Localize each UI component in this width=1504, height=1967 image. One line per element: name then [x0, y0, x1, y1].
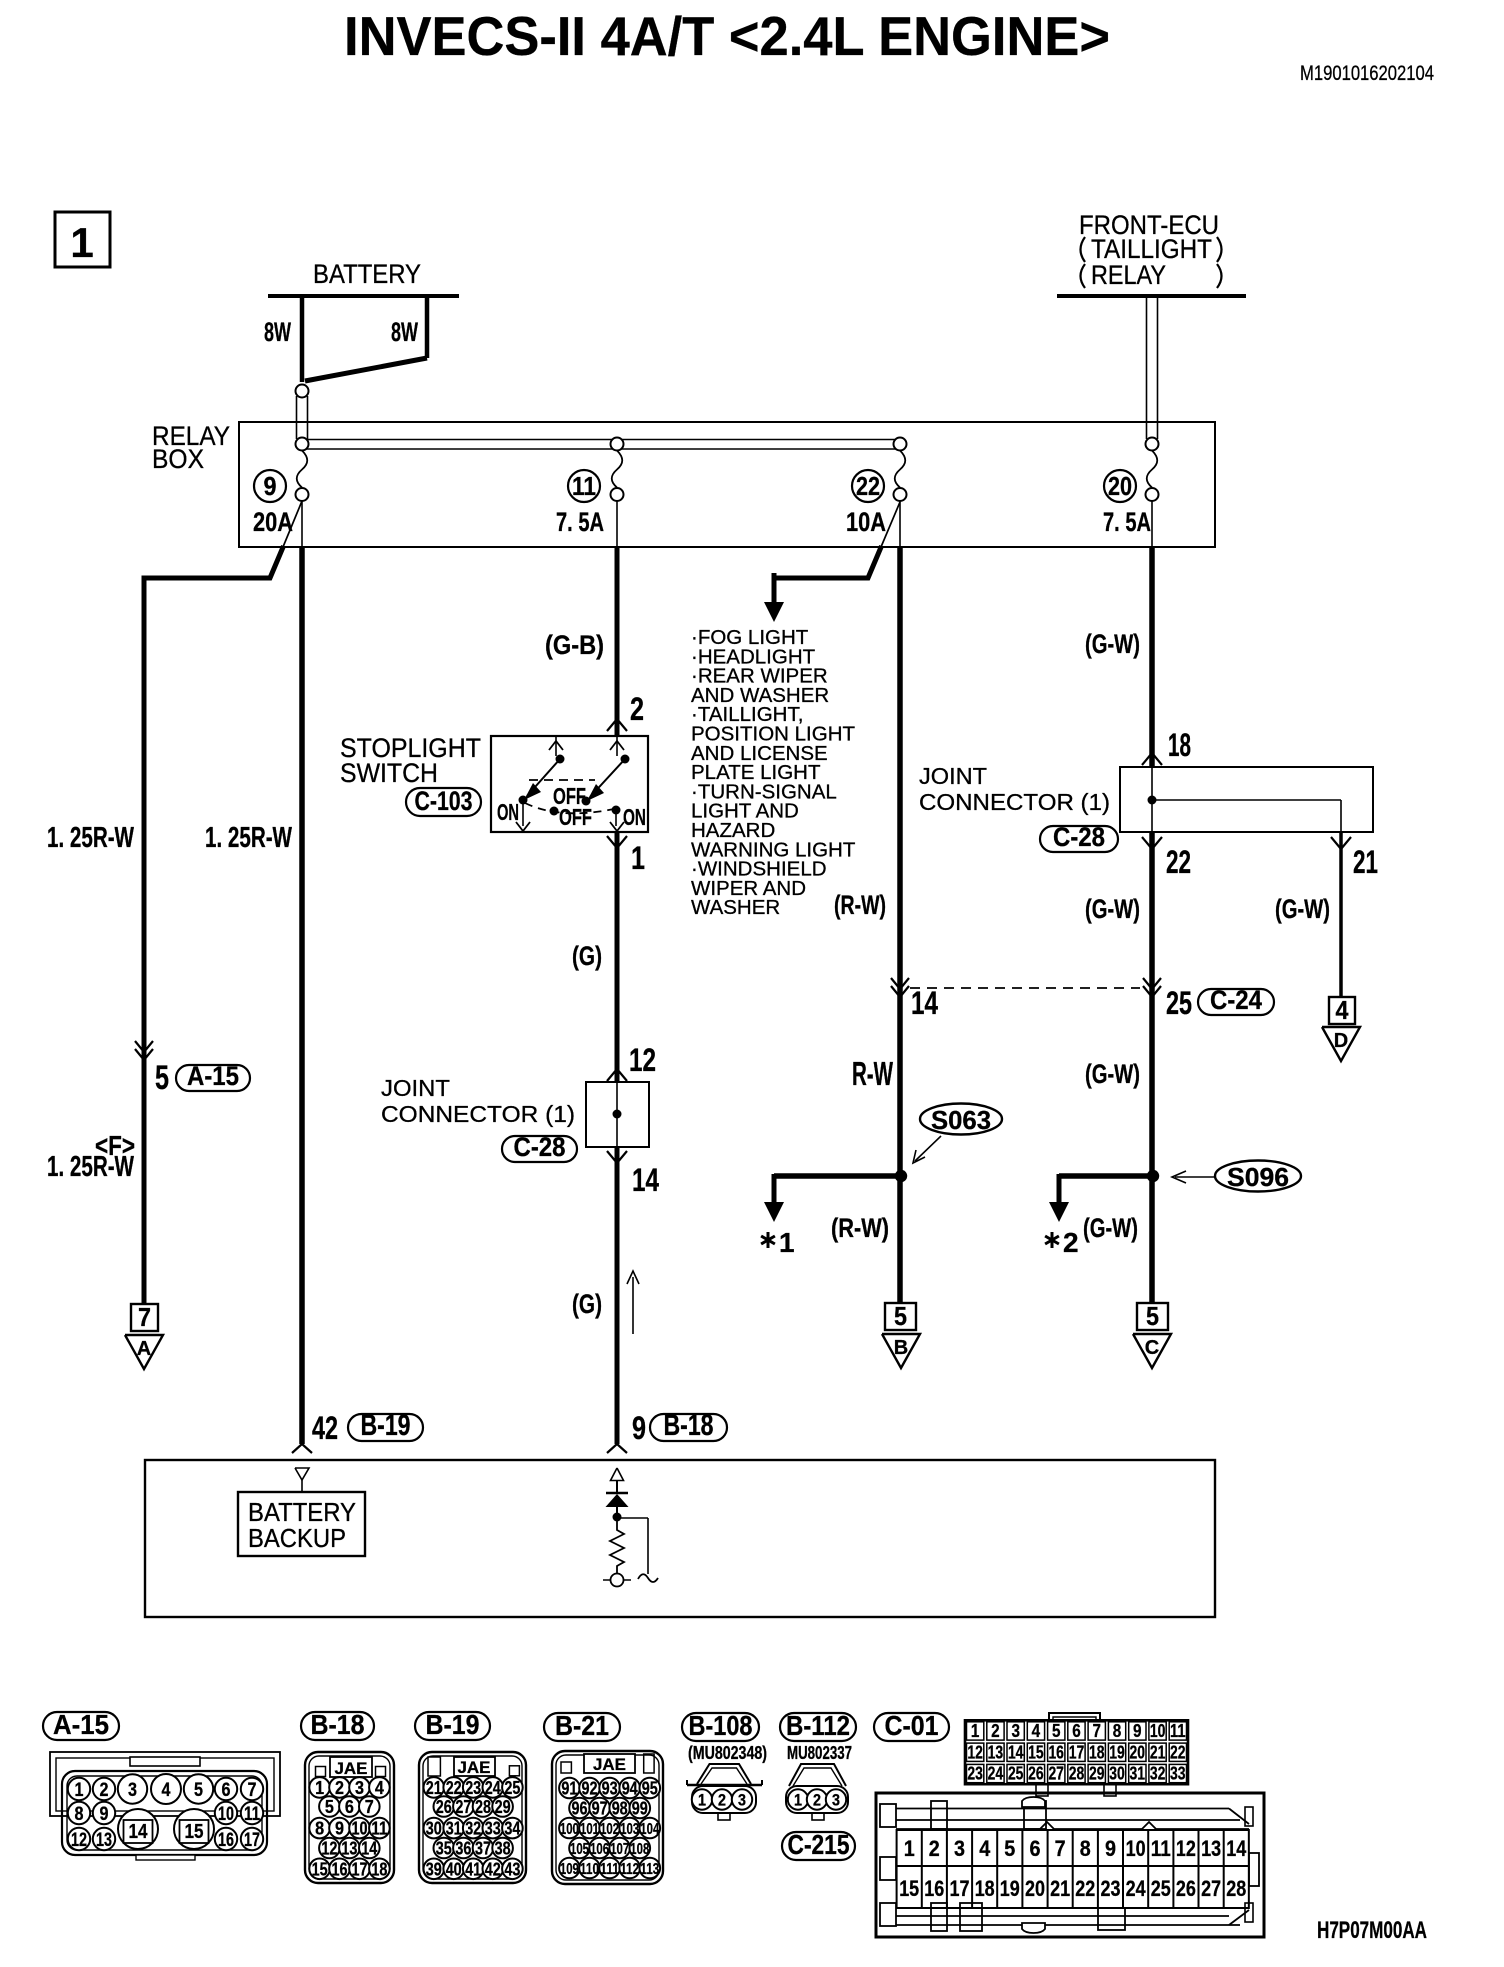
- svg-text:104: 104: [640, 1821, 659, 1838]
- svg-text:1: 1: [904, 1836, 915, 1861]
- svg-text:20: 20: [1130, 1742, 1146, 1762]
- svg-text:JAE: JAE: [458, 1758, 491, 1777]
- svg-text:(G-W): (G-W): [1083, 1213, 1138, 1243]
- svg-text:33: 33: [485, 1819, 501, 1839]
- svg-text:25: 25: [1151, 1876, 1171, 1901]
- svg-text:(G-W): (G-W): [1085, 1059, 1140, 1089]
- svg-text:29: 29: [495, 1797, 511, 1817]
- svg-text:(G-W): (G-W): [1085, 894, 1140, 924]
- svg-text:8W: 8W: [391, 317, 418, 347]
- svg-text:23: 23: [1101, 1876, 1121, 1901]
- svg-text:9: 9: [1133, 1721, 1142, 1741]
- svg-text:26: 26: [1176, 1876, 1196, 1901]
- svg-text:6: 6: [1072, 1721, 1081, 1741]
- svg-text:97: 97: [592, 1798, 608, 1818]
- svg-text:26: 26: [1028, 1764, 1044, 1784]
- svg-text:12: 12: [71, 1830, 87, 1851]
- svg-text:96: 96: [572, 1798, 588, 1818]
- svg-text:20A: 20A: [253, 507, 293, 537]
- svg-text:1. 25R-W: 1. 25R-W: [47, 822, 134, 854]
- svg-text:BATTERY: BATTERY: [313, 259, 421, 289]
- svg-text:CONNECTOR (1): CONNECTOR (1): [381, 1101, 575, 1127]
- svg-text:1: 1: [631, 840, 645, 876]
- svg-text:2: 2: [718, 1791, 726, 1810]
- svg-text:(G-W): (G-W): [1085, 629, 1140, 659]
- svg-text:3: 3: [954, 1836, 965, 1861]
- svg-text:95: 95: [642, 1778, 658, 1798]
- svg-text:12: 12: [629, 1042, 656, 1078]
- svg-text:20: 20: [1108, 471, 1132, 501]
- svg-text:22: 22: [1075, 1876, 1095, 1901]
- svg-text:B-108: B-108: [689, 1710, 753, 1741]
- svg-text:16: 16: [218, 1830, 234, 1851]
- svg-text:112: 112: [620, 1861, 639, 1878]
- svg-text:WASHER: WASHER: [691, 896, 780, 919]
- svg-text:98: 98: [612, 1798, 628, 1818]
- svg-text:106: 106: [590, 1841, 609, 1858]
- svg-text:13: 13: [988, 1742, 1004, 1762]
- svg-text:25: 25: [1008, 1764, 1024, 1784]
- svg-text:13: 13: [341, 1838, 357, 1858]
- svg-text:15: 15: [899, 1876, 919, 1901]
- svg-text:4: 4: [1032, 1721, 1041, 1741]
- svg-text:3: 3: [1011, 1721, 1020, 1741]
- svg-text:5: 5: [194, 1780, 203, 1801]
- svg-text:1: 1: [315, 1778, 324, 1798]
- svg-text:BACKUP: BACKUP: [248, 1523, 346, 1553]
- svg-text:(R-W): (R-W): [834, 890, 886, 920]
- svg-text:27: 27: [1201, 1876, 1221, 1901]
- svg-text:C-01: C-01: [885, 1710, 939, 1741]
- svg-text:20: 20: [1025, 1876, 1045, 1901]
- svg-text:31: 31: [1130, 1764, 1146, 1784]
- svg-text:8: 8: [315, 1819, 324, 1839]
- svg-text:91: 91: [561, 1778, 577, 1798]
- svg-text:8: 8: [1113, 1721, 1122, 1741]
- svg-text:15: 15: [1028, 1742, 1044, 1762]
- svg-text:28: 28: [1069, 1764, 1085, 1784]
- svg-text:24: 24: [1126, 1876, 1147, 1901]
- svg-text:17: 17: [1069, 1742, 1085, 1762]
- svg-text:C-28: C-28: [1053, 822, 1105, 852]
- svg-text:ON: ON: [497, 799, 519, 825]
- svg-text:2: 2: [991, 1721, 1000, 1741]
- svg-text:2: 2: [1063, 1227, 1079, 1258]
- svg-text:22: 22: [446, 1778, 462, 1798]
- svg-text:10: 10: [218, 1804, 234, 1825]
- svg-text:1: 1: [779, 1227, 795, 1258]
- svg-text:11: 11: [572, 471, 596, 501]
- svg-text:21: 21: [1150, 1742, 1166, 1762]
- svg-text:18: 18: [1168, 727, 1191, 763]
- svg-text:42: 42: [485, 1859, 501, 1879]
- svg-text:30: 30: [1109, 1764, 1125, 1784]
- svg-text:18: 18: [975, 1876, 995, 1901]
- svg-text:2: 2: [813, 1791, 821, 1810]
- svg-text:5: 5: [1052, 1721, 1061, 1741]
- svg-text:(MU802348): (MU802348): [688, 1743, 767, 1763]
- svg-text:B-19: B-19: [426, 1709, 480, 1740]
- svg-text:5: 5: [1004, 1836, 1015, 1861]
- svg-text:100: 100: [560, 1821, 579, 1838]
- svg-text:19: 19: [1109, 1742, 1125, 1762]
- svg-text:8: 8: [1080, 1836, 1091, 1861]
- svg-text:110: 110: [580, 1861, 599, 1878]
- svg-text:101: 101: [580, 1821, 599, 1838]
- svg-text:7: 7: [138, 1302, 151, 1332]
- svg-text:21: 21: [1353, 844, 1378, 880]
- svg-text:3: 3: [738, 1791, 746, 1810]
- svg-text:C-24: C-24: [1210, 985, 1262, 1015]
- svg-text:1: 1: [698, 1791, 706, 1810]
- svg-text:6: 6: [222, 1780, 231, 1801]
- svg-text:A-15: A-15: [53, 1709, 109, 1740]
- svg-text:32: 32: [1150, 1764, 1166, 1784]
- svg-text:1: 1: [971, 1721, 980, 1741]
- svg-text:9: 9: [100, 1804, 109, 1825]
- svg-text:22: 22: [1166, 844, 1191, 880]
- svg-text:22: 22: [856, 471, 880, 501]
- svg-text:28: 28: [1226, 1876, 1246, 1901]
- svg-text:4: 4: [162, 1780, 171, 1801]
- svg-text:27: 27: [455, 1797, 471, 1817]
- svg-text:7: 7: [248, 1780, 257, 1801]
- svg-text:12: 12: [321, 1838, 337, 1858]
- svg-text:A-15: A-15: [187, 1061, 239, 1091]
- svg-text:99: 99: [632, 1798, 648, 1818]
- svg-text:14: 14: [129, 1821, 149, 1843]
- svg-text:7: 7: [1055, 1836, 1066, 1861]
- svg-text:D: D: [1334, 1030, 1348, 1052]
- svg-text:19: 19: [1000, 1876, 1020, 1901]
- svg-text:(G): (G): [572, 941, 602, 971]
- svg-text:SWITCH: SWITCH: [340, 758, 438, 788]
- svg-text:22: 22: [1170, 1742, 1186, 1762]
- svg-text:B-18: B-18: [311, 1709, 365, 1740]
- svg-text:4: 4: [1336, 995, 1349, 1025]
- svg-text:39: 39: [426, 1859, 442, 1879]
- svg-text:(G): (G): [572, 1289, 602, 1319]
- svg-text:BOX: BOX: [152, 444, 204, 474]
- svg-text:14: 14: [911, 985, 938, 1021]
- svg-text:24: 24: [485, 1778, 501, 1798]
- svg-text:CONNECTOR (1): CONNECTOR (1): [919, 789, 1110, 815]
- svg-text:B-19: B-19: [361, 1409, 411, 1442]
- svg-text:37: 37: [475, 1838, 491, 1858]
- svg-text:41: 41: [465, 1859, 481, 1879]
- svg-text:43: 43: [504, 1859, 520, 1879]
- svg-text:11: 11: [1170, 1721, 1186, 1741]
- svg-text:16: 16: [1048, 1742, 1064, 1762]
- svg-text:13: 13: [96, 1830, 112, 1851]
- svg-text:25: 25: [1166, 985, 1192, 1021]
- svg-text:23: 23: [967, 1764, 983, 1784]
- svg-text:JOINT: JOINT: [381, 1075, 450, 1101]
- svg-text:C-28: C-28: [514, 1132, 566, 1162]
- svg-text:14: 14: [361, 1838, 377, 1858]
- svg-text:36: 36: [455, 1838, 471, 1858]
- svg-text:3: 3: [128, 1780, 137, 1801]
- svg-text:111: 111: [600, 1861, 619, 1878]
- svg-text:35: 35: [436, 1838, 452, 1858]
- svg-text:6: 6: [1030, 1836, 1041, 1861]
- svg-text:5: 5: [155, 1059, 169, 1097]
- svg-text:JAE: JAE: [593, 1755, 626, 1774]
- svg-text:RELAY: RELAY: [1091, 260, 1166, 290]
- svg-text:14: 14: [632, 1162, 659, 1198]
- svg-text:105: 105: [570, 1841, 589, 1858]
- svg-text:40: 40: [446, 1859, 462, 1879]
- svg-text:(G-W): (G-W): [1275, 894, 1330, 924]
- svg-text:3: 3: [832, 1791, 840, 1810]
- svg-text:10A: 10A: [846, 507, 886, 537]
- svg-text:15: 15: [312, 1859, 328, 1879]
- svg-text:7: 7: [1093, 1721, 1102, 1741]
- svg-text:M1901016202104: M1901016202104: [1300, 62, 1434, 85]
- svg-text:B-112: B-112: [786, 1710, 850, 1741]
- svg-text:12: 12: [967, 1742, 983, 1762]
- svg-text:18: 18: [371, 1859, 387, 1879]
- svg-text:C-103: C-103: [415, 786, 473, 816]
- svg-text:B: B: [894, 1337, 908, 1359]
- svg-text:5: 5: [894, 1301, 907, 1331]
- svg-text:JOINT: JOINT: [919, 763, 987, 789]
- svg-text:2: 2: [630, 691, 644, 727]
- svg-text:8: 8: [75, 1804, 84, 1825]
- svg-text:21: 21: [1050, 1876, 1070, 1901]
- svg-text:B-18: B-18: [664, 1409, 714, 1442]
- svg-text:108: 108: [630, 1841, 649, 1858]
- svg-text:33: 33: [1170, 1764, 1186, 1784]
- svg-text:7. 5A: 7. 5A: [1103, 507, 1151, 537]
- svg-text:(R-W): (R-W): [831, 1213, 889, 1243]
- svg-text:S096: S096: [1227, 1162, 1289, 1192]
- svg-text:9: 9: [1105, 1836, 1116, 1861]
- svg-text:R-W: R-W: [852, 1055, 894, 1092]
- svg-text:2: 2: [100, 1780, 109, 1801]
- svg-text:42: 42: [312, 1410, 338, 1446]
- svg-text:28: 28: [475, 1797, 491, 1817]
- svg-text:MU802337: MU802337: [787, 1743, 852, 1763]
- svg-text:10: 10: [352, 1819, 368, 1839]
- svg-text:16: 16: [924, 1876, 944, 1901]
- svg-text:4: 4: [375, 1778, 384, 1798]
- svg-text:25: 25: [504, 1778, 520, 1798]
- svg-text:1. 25R-W: 1. 25R-W: [205, 822, 292, 854]
- svg-text:A: A: [137, 1338, 151, 1360]
- svg-text:10: 10: [1126, 1836, 1146, 1861]
- svg-text:B-21: B-21: [555, 1710, 609, 1741]
- svg-text:113: 113: [640, 1861, 659, 1878]
- svg-text:JAE: JAE: [335, 1759, 368, 1778]
- svg-text:2: 2: [335, 1778, 344, 1798]
- svg-text:6: 6: [345, 1797, 354, 1817]
- svg-text:INVECS-II 4A/T <2.4L ENGINE>: INVECS-II 4A/T <2.4L ENGINE>: [344, 5, 1110, 67]
- svg-text:31: 31: [446, 1819, 462, 1839]
- svg-text:38: 38: [495, 1838, 511, 1858]
- svg-text:7. 5A: 7. 5A: [556, 507, 604, 537]
- svg-text:7: 7: [365, 1797, 374, 1817]
- svg-text:30: 30: [426, 1819, 442, 1839]
- svg-text:3: 3: [355, 1778, 364, 1798]
- svg-text:27: 27: [1048, 1764, 1064, 1784]
- svg-text:17: 17: [950, 1876, 970, 1901]
- svg-text:18: 18: [1089, 1742, 1105, 1762]
- svg-text:1: 1: [75, 1780, 84, 1801]
- svg-text:21: 21: [426, 1778, 442, 1798]
- svg-text:26: 26: [436, 1797, 452, 1817]
- svg-text:9: 9: [264, 471, 277, 501]
- svg-text:5: 5: [1146, 1301, 1159, 1331]
- svg-text:1: 1: [70, 219, 93, 266]
- svg-text:OFF: OFF: [559, 804, 592, 830]
- svg-text:92: 92: [582, 1778, 598, 1798]
- svg-text:14: 14: [1226, 1836, 1247, 1861]
- svg-text:109: 109: [560, 1861, 579, 1878]
- svg-text:S063: S063: [931, 1105, 991, 1135]
- svg-text:16: 16: [332, 1859, 348, 1879]
- svg-text:23: 23: [465, 1778, 481, 1798]
- svg-text:14: 14: [1008, 1742, 1024, 1762]
- svg-text:11: 11: [1151, 1836, 1171, 1861]
- svg-text:C: C: [1145, 1337, 1159, 1359]
- svg-text:10: 10: [1150, 1721, 1166, 1741]
- svg-text:13: 13: [1201, 1836, 1221, 1861]
- svg-text:11: 11: [244, 1804, 260, 1825]
- svg-text:15: 15: [185, 1821, 204, 1843]
- svg-text:32: 32: [465, 1819, 481, 1839]
- svg-text:ON: ON: [623, 804, 646, 830]
- svg-text:1. 25R-W: 1. 25R-W: [47, 1151, 134, 1183]
- svg-text:(G-B): (G-B): [545, 630, 604, 660]
- svg-text:4: 4: [979, 1836, 991, 1861]
- svg-text:93: 93: [602, 1778, 618, 1798]
- svg-text:8W: 8W: [264, 317, 291, 347]
- svg-text:29: 29: [1089, 1764, 1105, 1784]
- svg-text:9: 9: [632, 1410, 646, 1446]
- svg-text:C-215: C-215: [788, 1829, 850, 1860]
- svg-text:2: 2: [929, 1836, 940, 1861]
- svg-text:9: 9: [335, 1819, 344, 1839]
- svg-text:24: 24: [988, 1764, 1004, 1784]
- svg-text:12: 12: [1176, 1836, 1196, 1861]
- svg-text:5: 5: [325, 1797, 334, 1817]
- svg-text:11: 11: [371, 1819, 387, 1839]
- svg-text:17: 17: [244, 1830, 260, 1851]
- svg-text:1: 1: [794, 1791, 802, 1810]
- svg-text:107: 107: [610, 1841, 629, 1858]
- svg-text:17: 17: [352, 1859, 368, 1879]
- svg-text:H7P07M00AA: H7P07M00AA: [1317, 1917, 1427, 1944]
- svg-text:34: 34: [504, 1819, 520, 1839]
- svg-text:94: 94: [622, 1778, 638, 1798]
- svg-text:103: 103: [620, 1821, 639, 1838]
- svg-text:102: 102: [600, 1821, 619, 1838]
